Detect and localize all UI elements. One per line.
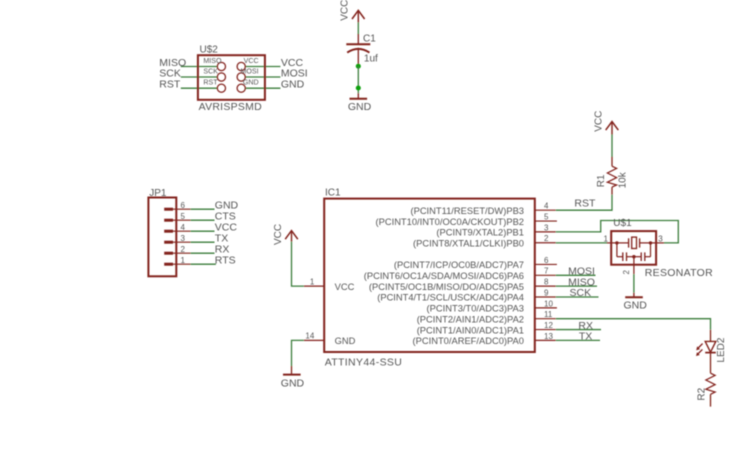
IC1 pin 12 PA1 stub	[535, 329, 556, 331]
US2 pad pin 5 (RST)	[217, 84, 225, 92]
junction node (C1 lower)	[356, 64, 361, 69]
wire C1 to GND	[357, 66, 359, 93]
svg-text:5: 5	[544, 212, 549, 221]
wire JP1-2 to RX	[191, 252, 215, 254]
IC1 pin 3 PB1 stub	[535, 231, 556, 233]
SECTION: JP1 serial header	[148, 188, 238, 276]
SECTION: AVRISP header US2	[159, 44, 307, 113]
svg-text:(PCINT11/RESET/DW)PB3: (PCINT11/RESET/DW)PB3	[410, 206, 524, 216]
JP1 pin 2	[164, 252, 190, 255]
wire IC1 pin 2 (XTAL1) to resonator pin 1	[556, 242, 607, 244]
svg-text:10k: 10k	[617, 171, 628, 188]
connector JP1 body	[148, 198, 176, 277]
svg-text:5: 5	[181, 212, 186, 221]
svg-text:(PCINT4/T1/SCL/USCK/ADC4)PA4: (PCINT4/T1/SCL/USCK/ADC4)PA4	[377, 293, 524, 303]
svg-text:(PCINT0/AREF/ADC0)PA0: (PCINT0/AREF/ADC0)PA0	[413, 336, 524, 346]
IC1 pin 1 VCC stub	[304, 285, 324, 287]
svg-text:(PCINT9/XTAL2)PB1: (PCINT9/XTAL2)PB1	[436, 228, 524, 238]
svg-text:ATTINY44-SSU: ATTINY44-SSU	[325, 357, 403, 369]
svg-text:2: 2	[544, 234, 549, 243]
svg-text:(PCINT3/T0/ADC3)PA3: (PCINT3/T0/ADC3)PA3	[427, 304, 524, 314]
JP1 pin 5	[164, 219, 190, 222]
US2 pad pin 2 (VCC)	[237, 62, 245, 70]
svg-text:6: 6	[181, 201, 186, 210]
svg-text:2: 2	[622, 270, 631, 275]
svg-text:MOSI: MOSI	[281, 67, 308, 79]
resistor R1	[607, 157, 616, 195]
LED2 emission arrows	[696, 344, 703, 356]
wire IC1 pin 11 to LED2	[556, 319, 711, 330]
svg-text:7: 7	[544, 267, 549, 276]
IC1 pin 8 PA5 stub	[535, 285, 556, 287]
svg-text:MISO: MISO	[203, 57, 222, 65]
supply symbol VCC (above R1)	[606, 122, 619, 135]
svg-text:14: 14	[305, 332, 314, 341]
svg-text:4: 4	[544, 202, 549, 211]
svg-text:10: 10	[544, 299, 553, 308]
svg-text:RST: RST	[203, 79, 218, 87]
resonator internal capacitors	[617, 243, 651, 261]
IC1 pin 2 PB0 stub	[535, 242, 556, 244]
JP1 pin 3	[164, 241, 190, 244]
wire VCC right of US2	[245, 66, 280, 68]
wire RX stub (pin 12)	[556, 329, 601, 331]
IC1 pin 5 PB2 stub	[535, 220, 557, 222]
IC IC1 body	[324, 199, 535, 352]
svg-text:1: 1	[310, 277, 315, 286]
svg-text:6: 6	[544, 256, 549, 265]
IC1 pin 14 GND stub	[304, 339, 324, 341]
US2 pad pin 6 (GND)	[237, 84, 245, 92]
svg-text:(PCINT7/ICP/OC0B/ADC7)PA7: (PCINT7/ICP/OC0B/ADC7)PA7	[394, 260, 524, 270]
US2 pad pin 1 (MISO)	[217, 62, 225, 70]
svg-text:GND: GND	[281, 377, 305, 389]
SECTION: resonator	[556, 218, 713, 312]
IC1 pin 10 PA3 stub	[535, 307, 557, 309]
svg-text:R1: R1	[596, 174, 607, 187]
svg-text:R2: R2	[696, 387, 707, 400]
wire R1 to RST net	[556, 195, 612, 211]
wire TX stub (pin 13)	[556, 339, 600, 341]
svg-text:SCK: SCK	[159, 67, 181, 79]
svg-text:13: 13	[544, 332, 553, 341]
svg-text:(PCINT8/XTAL1/CLKI)PB0: (PCINT8/XTAL1/CLKI)PB0	[413, 238, 524, 248]
US2 pad pin 4 (MOSI)	[237, 73, 245, 81]
svg-text:MOSI: MOSI	[240, 68, 258, 76]
svg-text:RST: RST	[574, 198, 596, 210]
wire JP1-5 to CTS	[191, 219, 215, 221]
svg-text:TX: TX	[579, 331, 592, 343]
wire JP1-4 to VCC	[191, 230, 215, 232]
US2 pad pin 3 (SCK)	[217, 73, 225, 81]
capacitor C1	[346, 34, 370, 65]
svg-text:9: 9	[544, 288, 549, 297]
svg-text:1uf: 1uf	[364, 53, 378, 64]
JP1 pin 1	[164, 263, 190, 266]
connector US2 body	[198, 55, 265, 100]
resonator crystal symbol	[617, 237, 651, 248]
svg-text:(PCINT6/OC1A/SDA/MOSI/ADC6)PA6: (PCINT6/OC1A/SDA/MOSI/ADC6)PA6	[364, 271, 524, 281]
svg-text:12: 12	[544, 321, 553, 330]
IC1 pin 4 PB3 stub	[535, 209, 556, 211]
supply symbol VCC (left of IC1)	[285, 231, 298, 242]
svg-text:(PCINT2/AIN1/ADC2)PA2: (PCINT2/AIN1/ADC2)PA2	[417, 314, 524, 324]
wire MOSI stub (pin 7)	[556, 274, 596, 276]
resistor R2	[706, 373, 715, 406]
IC1 pin 6 PA7 stub	[535, 263, 557, 265]
IC1 pin 13 PA0 stub	[535, 339, 556, 341]
junction node (resonator centre)	[632, 255, 635, 258]
wire MISO stub (pin 8)	[556, 285, 597, 287]
ground symbol GND (C1)	[350, 93, 368, 99]
SECTION: IC1 ATTINY44	[273, 188, 557, 390]
SECTION: LED2/R2	[556, 319, 727, 407]
wire RST left to US2 pin	[181, 87, 218, 89]
svg-text:GND: GND	[624, 300, 648, 312]
svg-text:VCC: VCC	[335, 282, 355, 292]
wire JP1-3 to TX	[191, 241, 215, 243]
svg-text:C1: C1	[363, 34, 376, 45]
svg-text:GND: GND	[243, 79, 259, 87]
svg-text:VCC: VCC	[273, 224, 284, 245]
svg-text:U$2: U$2	[200, 44, 219, 55]
svg-text:4: 4	[181, 223, 186, 232]
svg-text:VCC: VCC	[244, 57, 259, 65]
svg-text:VCC: VCC	[339, 0, 350, 21]
svg-text:3: 3	[658, 234, 663, 243]
svg-text:3: 3	[544, 223, 549, 232]
JP1 pin 4	[164, 230, 190, 233]
resonator pin 2 stub	[633, 257, 635, 275]
svg-text:GND: GND	[335, 336, 356, 346]
svg-text:RTS: RTS	[215, 254, 236, 266]
wire SCK left to US2 pin	[181, 76, 218, 78]
svg-text:(PCINT1/AIN0/ADC1)PA1: (PCINT1/AIN0/ADC1)PA1	[417, 325, 524, 335]
IC1 pin 7 PA6 stub	[535, 274, 556, 276]
svg-text:IC1: IC1	[325, 188, 341, 199]
ground symbol GND (resonator)	[625, 293, 643, 298]
junction node (resonator right)	[649, 241, 652, 244]
JP1 pin 6	[164, 208, 190, 211]
svg-text:1: 1	[604, 234, 609, 243]
svg-text:1: 1	[181, 256, 186, 265]
wire IC1 pin 14 to GND	[292, 340, 304, 366]
wire MISO left to US2 pin	[181, 66, 218, 68]
svg-text:GND: GND	[281, 79, 305, 91]
junction node (mid wire)	[356, 86, 361, 91]
junction node (resonator left)	[615, 241, 618, 244]
svg-text:SCK: SCK	[570, 287, 592, 299]
svg-text:LED2: LED2	[716, 337, 727, 362]
supply symbol VCC (top)	[352, 10, 365, 22]
resonator U$1 body	[611, 231, 656, 265]
IC1 pin 11 PA2 stub	[535, 318, 556, 320]
svg-text:11: 11	[544, 310, 553, 319]
resonator pin 1 stub	[607, 242, 617, 244]
svg-text:8: 8	[544, 278, 549, 287]
svg-text:JP1: JP1	[149, 188, 167, 199]
wire VCC to IC1 pin 1	[292, 242, 304, 287]
svg-text:3: 3	[181, 234, 186, 243]
svg-text:VCC: VCC	[593, 111, 604, 132]
ground symbol GND (below IC1)	[283, 366, 301, 375]
svg-text:(PCINT5/OC1B/MISO/DO/ADC5)PA5: (PCINT5/OC1B/MISO/DO/ADC5)PA5	[369, 282, 524, 292]
svg-text:RST: RST	[159, 79, 181, 91]
svg-text:U$1: U$1	[613, 218, 632, 229]
wire JP1-6 to GND	[191, 208, 215, 210]
wire JP1-1 to RTS	[191, 263, 216, 265]
IC1 pin 9 PA4 stub	[535, 296, 556, 298]
wire SCK stub (pin 9)	[556, 296, 599, 298]
svg-text:AVRISPSMD: AVRISPSMD	[199, 101, 262, 113]
svg-text:RESONATOR: RESONATOR	[645, 267, 713, 279]
wire VCC to R1	[611, 135, 613, 158]
resonator pin 3 stub	[651, 242, 665, 244]
svg-text:GND: GND	[348, 101, 372, 113]
svg-text:(PCINT10/INT0/OC0A/CKOUT)PB2: (PCINT10/INT0/OC0A/CKOUT)PB2	[376, 217, 525, 227]
LED LED2	[705, 330, 716, 373]
SECTION: C1 decoupling branch	[339, 0, 378, 113]
wire IC1 pin 3 (XTAL2) to resonator pin 3	[556, 221, 679, 243]
wire resonator pin 2 to GND	[633, 274, 635, 293]
svg-text:2: 2	[181, 245, 186, 254]
wire VCC to C1	[357, 22, 359, 34]
wire GND right of US2	[245, 87, 280, 89]
svg-text:SCK: SCK	[203, 68, 218, 76]
wire MOSI right of US2	[245, 76, 280, 78]
SECTION: right side R1/RST	[556, 111, 629, 343]
